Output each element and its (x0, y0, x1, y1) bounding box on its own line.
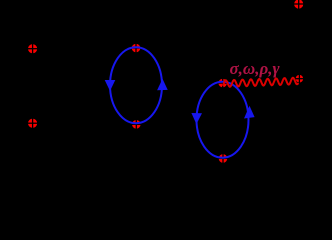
vertex insertion lower-left (27, 118, 38, 129)
vertex bottom of middle loop (131, 119, 142, 130)
vertex insertion upper-left (27, 43, 38, 54)
vertex top of right loop (217, 78, 228, 89)
vertex insertion top-right (293, 0, 304, 10)
nucleon line of left diagram (black on black) (32, 10, 34, 165)
arrow left-down on right loop (191, 113, 202, 124)
arrow left-down on middle loop (105, 80, 116, 91)
arrow right-up on right loop (244, 106, 255, 119)
baryon loop (middle) (110, 47, 162, 123)
svg-text:σ,ω,ρ,γ: σ,ω,ρ,γ (230, 59, 281, 78)
baryon loop (right) (197, 82, 249, 158)
meson propagator wavy line (223, 78, 299, 87)
arrow right-up on middle loop (157, 79, 168, 91)
vertex bottom of right loop (218, 153, 229, 164)
vertex at end of wavy line (295, 74, 305, 84)
vertex top of middle loop (131, 43, 142, 54)
